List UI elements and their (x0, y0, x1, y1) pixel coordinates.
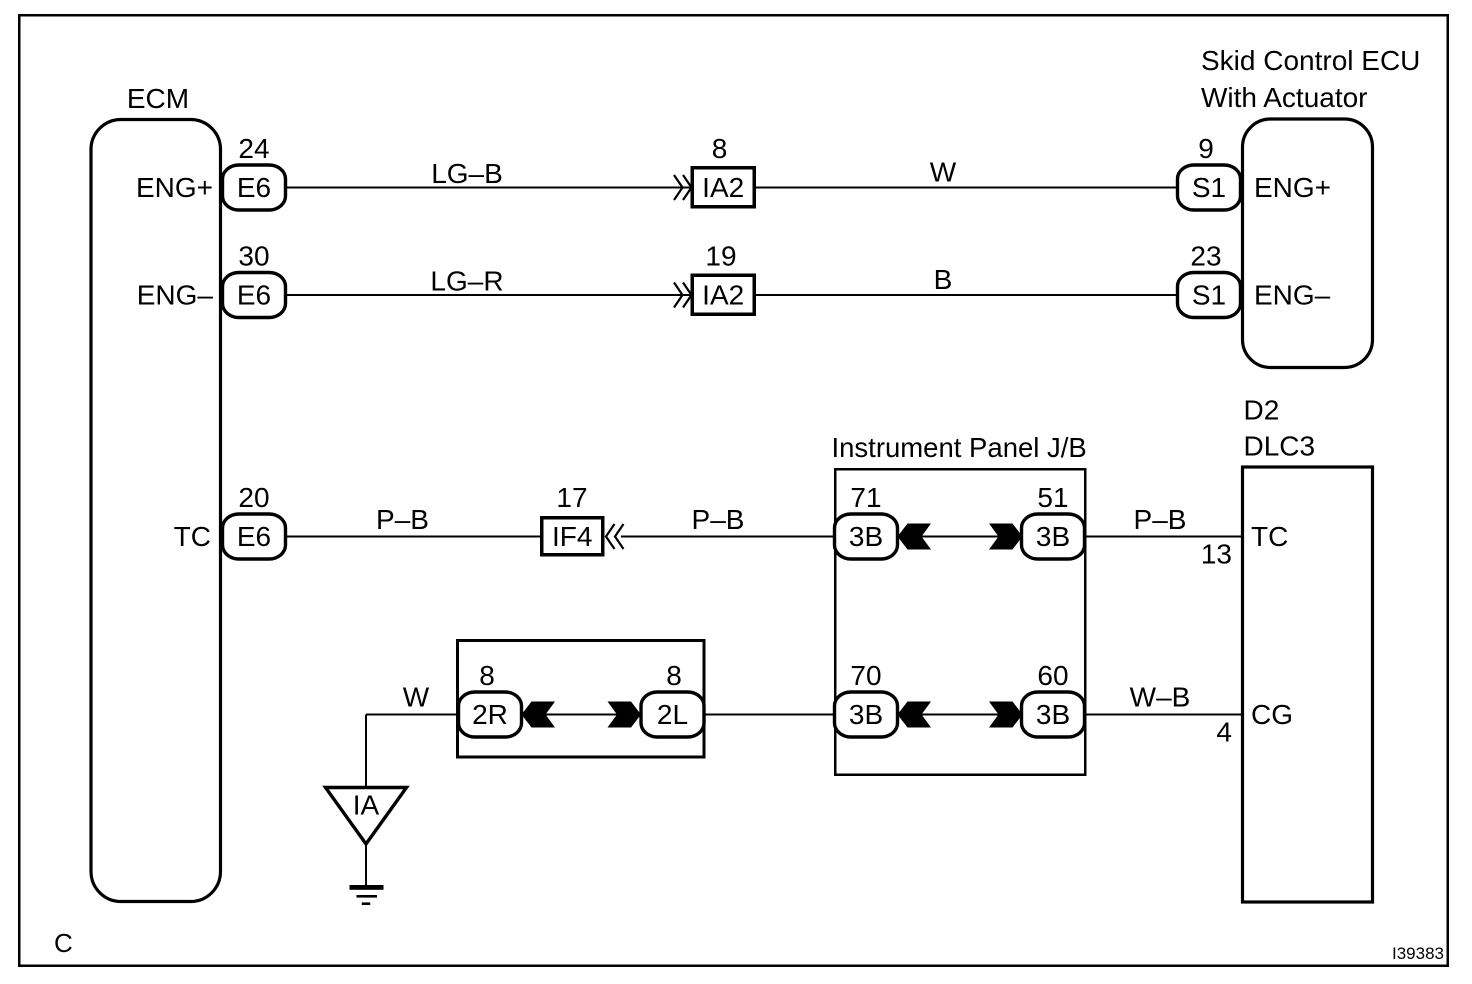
splice chevrons into IA2 (row2) (674, 283, 692, 308)
svg-text:CG: CG (1251, 699, 1293, 730)
DLC3 connector box (1243, 467, 1373, 902)
splice chevrons into IA2 (row1) (674, 175, 692, 200)
svg-text:ECM: ECM (127, 83, 189, 114)
svg-text:13: 13 (1201, 539, 1232, 570)
wire triangle to ground (365, 844, 367, 885)
svg-text:30: 30 (238, 241, 269, 272)
svg-text:70: 70 (850, 660, 881, 691)
svg-text:3B: 3B (849, 699, 883, 730)
svg-text:LG–B: LG–B (431, 158, 503, 189)
ground point triangle IA (326, 788, 407, 845)
svg-text:W: W (403, 682, 430, 713)
arrowhead left (row3) (898, 524, 932, 550)
ground wire W (366, 714, 459, 716)
svg-text:C: C (54, 928, 73, 958)
svg-text:E6: E6 (237, 521, 271, 552)
svg-text:8: 8 (666, 660, 682, 691)
connector 3B pin 60 (1022, 692, 1085, 737)
wire W : IA2 to S1 (756, 187, 1179, 189)
svg-text:IA2: IA2 (702, 172, 744, 203)
connector 3B pin 70 (835, 692, 898, 737)
arrowhead left (2R) (522, 702, 556, 728)
svg-text:S1: S1 (1192, 172, 1226, 203)
junction connector IA2 (row1) (692, 168, 754, 207)
wire between 2R and 2L (522, 714, 642, 716)
svg-text:With Actuator: With Actuator (1201, 82, 1368, 113)
Instrument Panel J/B box (835, 469, 1085, 775)
svg-text:TC: TC (1251, 521, 1288, 552)
wire P-B : IF4 to J/B 3B (621, 536, 835, 538)
connector E6 pin 24 (223, 165, 286, 210)
connector 2R/2L junction box (458, 641, 705, 758)
junction connector IA2 (row2) (692, 275, 754, 314)
junction connector IF4 (542, 518, 603, 555)
svg-text:2L: 2L (657, 699, 688, 730)
svg-text:P–B: P–B (376, 504, 429, 535)
connector 3B pin 71 (835, 514, 898, 559)
arrowhead right (row3) (989, 524, 1023, 550)
svg-text:3B: 3B (849, 521, 883, 552)
svg-text:IF4: IF4 (552, 521, 592, 552)
connector 3B pin 51 (1022, 514, 1085, 559)
connector E6 pin 30 (223, 273, 286, 318)
wire ENG+ : E6 to IA2 (286, 187, 692, 189)
svg-text:D2: D2 (1244, 395, 1280, 426)
svg-text:Skid Control ECU: Skid Control ECU (1201, 45, 1420, 76)
svg-text:S1: S1 (1192, 280, 1226, 311)
svg-text:20: 20 (238, 482, 269, 513)
svg-text:8: 8 (712, 133, 728, 164)
wire W-B : 3B to DLC3 CG (1085, 714, 1242, 716)
svg-text:Instrument Panel J/B: Instrument Panel J/B (832, 432, 1087, 463)
wire between 3B 70 and 3B 60 (898, 714, 1023, 716)
connector S1 pin 9 (1178, 165, 1241, 210)
svg-text:8: 8 (479, 660, 495, 691)
ground symbol (350, 885, 384, 905)
connector 2R pin 8 (459, 692, 522, 737)
svg-text:W: W (930, 157, 957, 188)
svg-text:DLC3: DLC3 (1244, 431, 1316, 462)
svg-text:4: 4 (1216, 717, 1232, 748)
wire 2L to 3B 70 (704, 714, 835, 716)
svg-text:P–B: P–B (692, 504, 745, 535)
svg-text:W–B: W–B (1130, 682, 1191, 713)
svg-text:2R: 2R (472, 699, 508, 730)
connector 2L pin 8 (641, 692, 704, 737)
svg-text:IA: IA (353, 790, 380, 821)
svg-text:LG–R: LG–R (430, 266, 503, 297)
arrowhead left (row4) (898, 702, 932, 728)
wire between 3B 71 and 3B 51 (898, 536, 1023, 538)
svg-text:I39383: I39383 (1392, 944, 1444, 963)
Skid Control ECU box (1243, 119, 1373, 368)
svg-text:ENG+: ENG+ (136, 172, 213, 203)
svg-text:17: 17 (556, 482, 587, 513)
svg-text:IA2: IA2 (702, 280, 744, 311)
svg-text:ENG–: ENG– (137, 280, 214, 311)
svg-text:P–B: P–B (1134, 504, 1187, 535)
svg-text:E6: E6 (237, 172, 271, 203)
splice chevrons out of IF4 (606, 524, 624, 549)
wire TC : E6 to IF4 (286, 536, 541, 538)
svg-text:60: 60 (1037, 660, 1068, 691)
wire B : IA2 to S1 (756, 294, 1179, 296)
svg-text:9: 9 (1198, 133, 1214, 164)
ECM connector box (91, 120, 221, 902)
svg-text:3B: 3B (1036, 699, 1070, 730)
svg-text:3B: 3B (1036, 521, 1070, 552)
svg-text:23: 23 (1190, 241, 1221, 272)
svg-text:24: 24 (238, 133, 269, 164)
arrowhead right (row4) (989, 702, 1023, 728)
svg-text:E6: E6 (237, 280, 271, 311)
wire ENG- : E6 to IA2 (286, 294, 692, 296)
wire vertical to ground triangle (365, 715, 367, 788)
svg-text:ENG+: ENG+ (1254, 172, 1331, 203)
arrowhead right (2L) (608, 702, 642, 728)
svg-text:B: B (934, 264, 953, 295)
svg-text:ENG–: ENG– (1254, 280, 1331, 311)
svg-text:TC: TC (174, 521, 211, 552)
svg-text:71: 71 (850, 482, 881, 513)
svg-text:51: 51 (1037, 482, 1068, 513)
svg-text:19: 19 (705, 241, 736, 272)
connector S1 pin 23 (1178, 273, 1241, 318)
wire P-B : 3B to DLC3 TC (1085, 536, 1242, 538)
connector E6 pin 20 (223, 514, 286, 559)
